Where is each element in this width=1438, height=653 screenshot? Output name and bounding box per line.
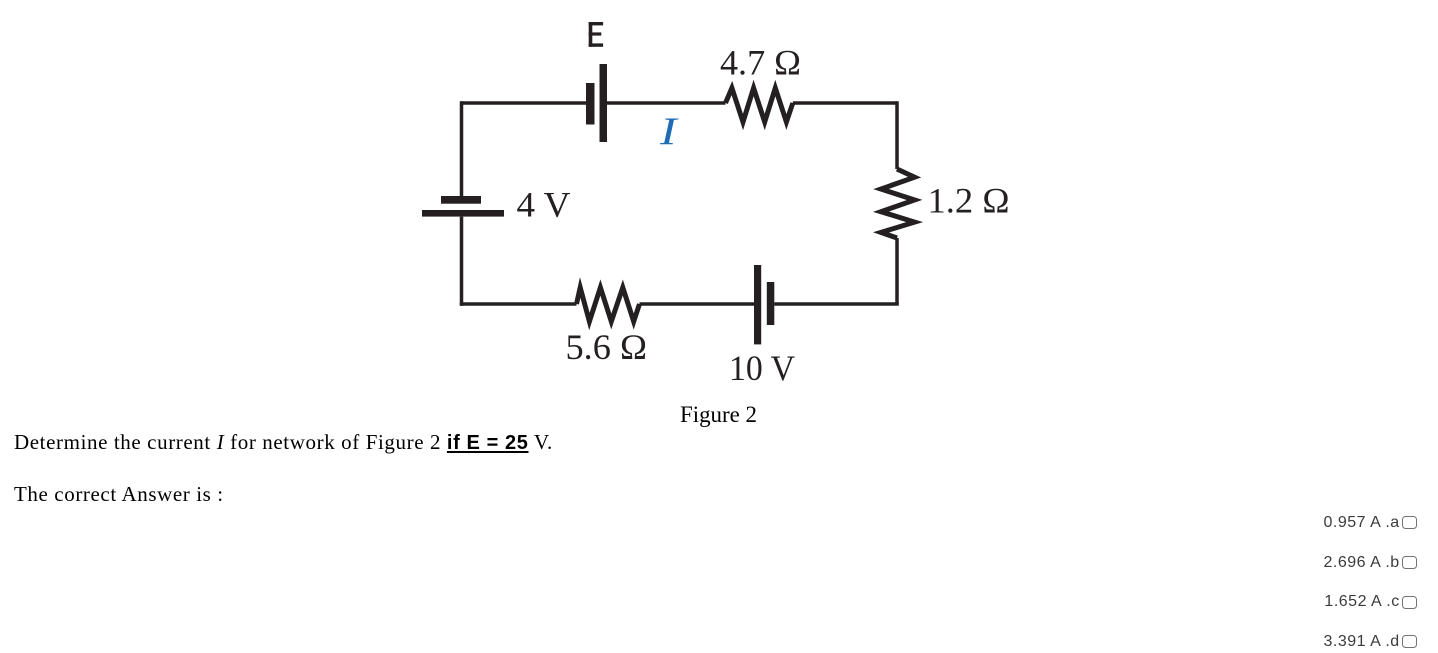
- svg-text:Figure 2: Figure 2: [680, 402, 757, 427]
- svg-text:10 V: 10 V: [729, 348, 795, 388]
- svg-text:5.6 Ω: 5.6 Ω: [566, 327, 648, 367]
- svg-text:1.2 Ω: 1.2 Ω: [928, 181, 1010, 221]
- svg-text:4 V: 4 V: [517, 185, 571, 225]
- svg-text:I: I: [659, 110, 679, 153]
- svg-text:4.7 Ω: 4.7 Ω: [720, 43, 801, 83]
